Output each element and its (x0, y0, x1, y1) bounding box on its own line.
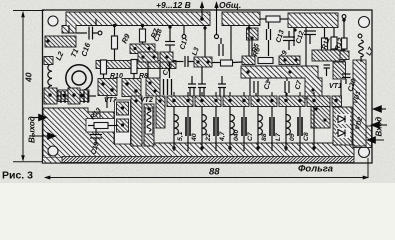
capacitor C12 under block (304, 31, 316, 44)
resistor R4 top gap (260, 16, 288, 22)
svg-text:+9...12 В: +9...12 В (156, 0, 191, 10)
svg-text:L7: L7 (275, 132, 282, 141)
svg-text:40: 40 (191, 133, 198, 142)
wire R8 down (133, 74, 135, 80)
dimension line 88 (bottom) (44, 158, 369, 180)
pad circle mid (182, 35, 186, 39)
svg-text:4,7: 4,7 (219, 130, 226, 142)
svg-text:40: 40 (24, 72, 34, 83)
pad top-left under strip (45, 36, 76, 47)
resistor R8 (131, 60, 137, 74)
IF verticals (174, 107, 336, 152)
output arrow 2 (29, 135, 56, 137)
left pad 2 (68, 88, 80, 104)
foil arrow right (367, 139, 384, 141)
block diodes (333, 107, 352, 145)
wires left top area (69, 19, 143, 36)
bus bar right ext (333, 62, 346, 79)
VT2 column 3 (156, 96, 165, 128)
mounting hole bottom-right (359, 147, 370, 158)
white island in foil (115, 100, 131, 144)
capacitor C3 (242, 117, 246, 136)
resistor R9 (112, 36, 118, 60)
pad under R14 (340, 51, 349, 60)
coil L7 (359, 40, 364, 57)
VT2 column 1 (131, 96, 142, 146)
pads under C15 (146, 78, 160, 96)
capacitor C10 (84, 91, 88, 103)
coil L2 (48, 64, 52, 93)
white channel in foil (86, 119, 115, 133)
capacitor C7 (285, 81, 289, 97)
coil in window (147, 109, 151, 131)
mounting hole top-right (359, 17, 370, 28)
capacitor C3 (254, 81, 258, 97)
capacitor C1 (186, 117, 190, 136)
svg-text:Фольга: Фольга (298, 164, 333, 175)
pad channel 1b (160, 52, 173, 62)
main pads row (167, 96, 342, 107)
resistor R5 (258, 58, 273, 64)
svg-text:VT2: VT2 (140, 97, 153, 104)
right corner foil block (353, 126, 372, 148)
capacitor C2 (214, 117, 218, 136)
capacitor C13 (267, 22, 271, 56)
wire pad1 to foil (106, 96, 108, 109)
diode VD1 (336, 114, 350, 124)
wire Общ. arrow (214, 1, 218, 39)
mounting hole bottom-left (48, 146, 58, 156)
wires under channel (148, 62, 287, 96)
pad channel 1a (138, 52, 158, 62)
resistor R12 (331, 28, 337, 53)
capacitor C16 (76, 27, 98, 40)
svg-text:Выход: Выход (28, 116, 37, 143)
svg-text:88: 88 (209, 167, 220, 178)
svg-text:Вход: Вход (375, 117, 384, 137)
svg-text:22: 22 (205, 133, 212, 142)
svg-text:88: 88 (261, 133, 268, 141)
capacitor C14 under block (283, 31, 295, 50)
top foil strip (62, 12, 210, 33)
capacitor C11 (219, 38, 223, 56)
left connector pad out1 (44, 88, 57, 104)
capacitor C19 (90, 129, 102, 144)
board outline (43, 10, 373, 163)
output arrow 1 (31, 117, 47, 119)
dimension line 40 (left) (13, 11, 44, 162)
svg-text:5,1: 5,1 (177, 131, 184, 141)
capacitor C5 (298, 117, 302, 136)
top foil strip right part (222, 12, 260, 26)
resistor R14 (342, 38, 348, 49)
coil L4 (174, 115, 178, 135)
wire R10 down (103, 74, 105, 79)
input arrow 2 (371, 124, 387, 126)
coil L6 (230, 115, 234, 135)
svg-text:C7: C7 (247, 131, 254, 141)
top right foil block (288, 13, 338, 28)
svg-text:C8: C8 (303, 132, 310, 141)
resistor R7 (140, 29, 146, 45)
junction dots pads row (172, 99, 337, 150)
coil L7 (258, 115, 262, 135)
pad below toroid (58, 90, 72, 102)
VT2 column 2 (144, 104, 154, 146)
capacitor C17 (173, 56, 194, 67)
svg-text:09: 09 (289, 133, 296, 141)
cap in notch (324, 65, 331, 76)
svg-text:Общ.: Общ. (219, 0, 241, 10)
bus bar right (312, 50, 345, 61)
svg-text:VT1: VT1 (329, 83, 342, 90)
wire +9..12V arrow (200, 1, 204, 21)
pad below strip right (247, 28, 259, 40)
capacitor C21 (342, 74, 351, 84)
coil L5 (202, 115, 206, 135)
middle-right big foil bar (241, 66, 322, 99)
right area block VT1 (311, 103, 330, 128)
toroid T1 (66, 65, 92, 91)
transistor pad VT3a (98, 79, 117, 96)
capacitor pair A (188, 67, 206, 96)
pad under R7 (130, 44, 155, 54)
bottom tight foil band (62, 157, 354, 163)
wire joining cluster (57, 95, 96, 97)
pad row stubs (174, 92, 314, 96)
right vertical foil strip (353, 60, 366, 146)
resistor R13 (88, 123, 118, 129)
capacitor C18l (61, 91, 65, 103)
bottom-left foil region (43, 108, 354, 158)
resistor R6 (212, 60, 242, 66)
bus bar mid-left (96, 61, 176, 69)
diode VD2 (336, 128, 350, 138)
capacitor C17v (165, 26, 175, 53)
coil L8 (286, 115, 290, 135)
pad circles top right (342, 15, 346, 19)
pad above bar right (279, 56, 300, 65)
mounting hole top-left (48, 16, 58, 26)
input arrow 1 (373, 108, 386, 110)
resistor R11 (322, 28, 328, 57)
svg-text:040: 040 (233, 129, 240, 141)
pad channel 2 (194, 57, 212, 67)
transistor pad VT2a (122, 79, 141, 97)
resistor R10 (101, 60, 107, 74)
pad above bar left (242, 56, 255, 65)
wires drops from strip right (205, 26, 306, 67)
capacitor C4 (270, 117, 274, 136)
scan noise overlay (0, 0, 1, 1)
capacitor C15 (164, 79, 172, 95)
svg-text:Рис. 3: Рис. 3 (2, 170, 33, 182)
capacitor pair B (218, 76, 226, 96)
wires right (322, 80, 341, 107)
